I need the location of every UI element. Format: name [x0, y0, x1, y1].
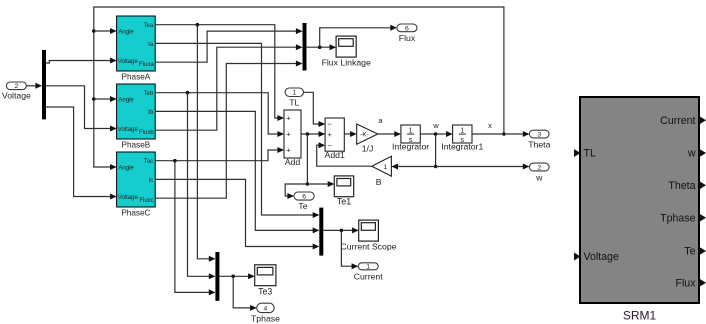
scope Te1	[334, 176, 353, 207]
wire branch to outport Tphase	[233, 276, 257, 311]
wire Tec branch to Tphase mux	[175, 161, 216, 296]
wire TL to Add1	[304, 92, 326, 127]
svg-text:SRM1: SRM1	[623, 309, 657, 323]
integrator block Integrator1	[441, 125, 483, 152]
scope Te3	[255, 265, 276, 297]
svg-text:PhaseC: PhaseC	[121, 209, 150, 218]
svg-text:Fluxb: Fluxb	[139, 130, 154, 136]
wire Flux mux to Flux Linkage scope	[307, 44, 337, 50]
wire Add output branch down	[306, 134, 310, 186]
svg-text:Current Scope: Current Scope	[340, 242, 396, 252]
wire to outport Te	[285, 184, 307, 199]
svg-text:Te: Te	[298, 201, 307, 211]
wire Ic to Current mux	[155, 179, 319, 249]
svg-text:a: a	[378, 116, 383, 125]
svg-text:Add1: Add1	[325, 150, 345, 160]
wire w branch down	[434, 134, 438, 168]
subsystem block PhaseA	[117, 16, 156, 82]
svg-text:−: −	[327, 120, 332, 129]
outport 6 Te	[294, 192, 314, 211]
svg-text:6: 6	[302, 193, 306, 200]
wire Fluxb to Flux mux	[155, 44, 302, 130]
svg-text:Tphase: Tphase	[660, 212, 695, 224]
svg-text:Flux: Flux	[399, 33, 416, 43]
svg-text:Theta: Theta	[528, 139, 550, 149]
wire Teb to Add input 2	[155, 91, 284, 137]
sum block Add1	[325, 118, 345, 160]
mux Flux bar	[303, 23, 307, 71]
svg-text:Tea: Tea	[144, 23, 154, 29]
svg-text:Teb: Teb	[144, 91, 154, 97]
svg-text:Tphase: Tphase	[251, 313, 280, 323]
wire to scope Te1	[307, 181, 334, 187]
inport 1 TL	[285, 88, 303, 108]
wire Add1 to gain 1/J	[344, 131, 356, 137]
svg-text:Voltage: Voltage	[584, 251, 619, 263]
outport 3 Theta	[528, 130, 550, 149]
svg-text:1: 1	[383, 164, 387, 171]
subsystem block PhaseC	[117, 152, 156, 218]
wire theta to PhaseB Angle	[94, 96, 117, 102]
svg-text:Add: Add	[285, 157, 301, 167]
wire Integrator to Integrator1	[420, 131, 452, 137]
svg-text:1: 1	[366, 264, 370, 271]
svg-text:Ic: Ic	[149, 178, 154, 184]
svg-text:Flux Linkage: Flux Linkage	[322, 58, 371, 68]
outport 2 w	[529, 163, 549, 182]
outport 4 Tphase	[251, 303, 280, 323]
wire Fluxc to Flux mux	[155, 61, 302, 199]
svg-text:w: w	[432, 121, 439, 130]
svg-text:Voltage: Voltage	[2, 91, 31, 101]
svg-text:1: 1	[292, 90, 296, 97]
label w between integrators	[432, 121, 439, 130]
wire w to outport w	[436, 164, 530, 170]
wire gain B to Add1 input 3	[317, 142, 372, 166]
wire Add to Add1	[301, 131, 325, 137]
svg-text:Tec: Tec	[144, 159, 153, 165]
wire Fluxa to Flux mux	[155, 28, 302, 62]
wire w to gain B	[391, 164, 435, 170]
wire Voltage to demux	[26, 83, 42, 89]
svg-text:x: x	[488, 121, 492, 130]
outport 6 Flux	[397, 24, 417, 43]
svg-text:Fluxa: Fluxa	[139, 62, 154, 68]
wire Tec to Add input 3	[155, 147, 284, 163]
svg-text:PhaseB: PhaseB	[122, 141, 151, 150]
svg-text:Voltage: Voltage	[118, 127, 139, 133]
svg-text:TL: TL	[289, 98, 299, 108]
wire Integrator1 to outport Theta	[472, 131, 529, 137]
svg-text:Ia: Ia	[148, 42, 154, 48]
svg-text:PhaseA: PhaseA	[122, 73, 151, 82]
label x	[488, 121, 492, 130]
svg-text:4: 4	[264, 305, 268, 312]
subsystem block SRM1	[574, 97, 706, 323]
demux Voltage bar	[42, 50, 46, 119]
wire gain to Integrator	[378, 131, 401, 137]
svg-text:Integrator1: Integrator1	[441, 142, 483, 152]
svg-text:+: +	[327, 130, 332, 139]
scope Flux Linkage	[322, 36, 371, 68]
svg-text:−: −	[327, 141, 332, 150]
wire branch to outport Current	[341, 230, 358, 269]
integrator block Integrator	[392, 125, 429, 152]
svg-text:Voltage: Voltage	[118, 195, 139, 201]
svg-text:w: w	[687, 148, 696, 160]
svg-text:+: +	[286, 114, 291, 123]
svg-text:Current: Current	[354, 271, 384, 281]
svg-text:Te1: Te1	[337, 197, 351, 207]
outport 1 Current	[354, 263, 384, 282]
svg-text:w: w	[535, 172, 543, 182]
svg-text:2: 2	[14, 83, 18, 90]
svg-text:Angle: Angle	[118, 29, 134, 35]
subsystem block PhaseB	[117, 84, 156, 150]
svg-text:1: 1	[460, 127, 464, 134]
wire demux to PhaseA Voltage	[46, 58, 117, 64]
svg-text:3: 3	[537, 131, 541, 138]
wire theta feedback (x to Angle inputs)	[92, 7, 506, 170]
wire theta to PhaseA Angle	[94, 28, 117, 34]
svg-text:1: 1	[409, 127, 413, 134]
svg-text:Te3: Te3	[258, 286, 272, 296]
wire Tea to Add input 1	[155, 23, 284, 121]
gain B	[372, 156, 392, 187]
mux Tphase bar	[215, 252, 219, 301]
label a	[378, 116, 383, 125]
wire Tphase mux to scope Te3	[219, 273, 254, 279]
svg-text:6: 6	[405, 25, 409, 32]
wire Tea branch to Tphase mux	[197, 25, 215, 262]
svg-text:Ib: Ib	[148, 110, 154, 116]
inport 2 Voltage	[2, 82, 31, 101]
wire demux to PhaseC Voltage	[46, 107, 117, 200]
wire Ia to Current mux	[155, 43, 319, 218]
svg-text:Voltage: Voltage	[118, 59, 139, 65]
sum block Add	[284, 110, 301, 167]
svg-text:Integrator: Integrator	[392, 142, 429, 152]
wire Current mux to Current Scope	[323, 227, 358, 233]
svg-text:Te: Te	[684, 246, 695, 258]
svg-text:+: +	[286, 130, 291, 139]
svg-text:Current: Current	[660, 115, 695, 127]
wire demux to PhaseB Voltage	[46, 86, 117, 132]
svg-text:-K-: -K-	[360, 132, 369, 139]
wire Teb branch to Tphase mux	[188, 93, 216, 280]
svg-text:TL: TL	[584, 148, 596, 160]
svg-text:Angle: Angle	[118, 97, 134, 103]
gain 1/J	[357, 124, 378, 153]
scope Current Scope	[340, 220, 396, 252]
svg-text:+: +	[286, 146, 291, 155]
svg-text:1/J: 1/J	[362, 143, 374, 153]
mux Current bar	[319, 208, 323, 256]
wire Ib to Current mux	[155, 111, 319, 233]
svg-text:2: 2	[537, 164, 541, 171]
svg-text:B: B	[376, 177, 382, 187]
svg-text:Theta: Theta	[668, 180, 695, 192]
svg-text:Flux: Flux	[675, 277, 696, 289]
wire branch to outport Flux	[320, 25, 397, 47]
svg-text:Fluxc: Fluxc	[139, 198, 153, 204]
svg-text:Angle: Angle	[118, 165, 134, 171]
